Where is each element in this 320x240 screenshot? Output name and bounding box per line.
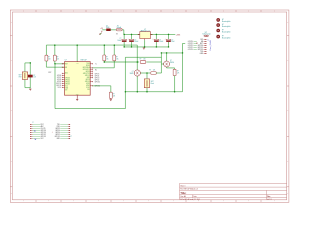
svg-text:GND: GND <box>57 138 60 140</box>
svg-text:SW?: SW? <box>18 75 21 77</box>
svg-text:Rev:: Rev: <box>267 196 271 198</box>
svg-text:GPIO16: GPIO16 <box>41 130 46 132</box>
svg-text:+: + <box>165 39 166 41</box>
svg-text:GPIO5: GPIO5 <box>95 74 100 76</box>
svg-text:EN: EN <box>201 41 203 43</box>
svg-text:GPIO0: GPIO0 <box>86 71 90 73</box>
svg-text:GPIO6: GPIO6 <box>57 75 61 77</box>
svg-text:R?: R? <box>33 75 35 77</box>
svg-text:GPIO14: GPIO14 <box>41 132 46 134</box>
svg-text:TXD0: TXD0 <box>86 63 90 65</box>
svg-text:J?: J? <box>208 39 210 41</box>
svg-text:GPIO13: GPIO13 <box>188 45 194 47</box>
svg-text:RXD: RXD <box>57 126 60 128</box>
svg-text:GND: GND <box>65 88 68 90</box>
svg-text:3V3: 3V3 <box>200 39 203 41</box>
svg-text:GPIO0: GPIO0 <box>55 132 60 134</box>
svg-text:SS34: SS34 <box>106 27 110 29</box>
svg-text:GPIO9: GPIO9 <box>57 81 61 83</box>
svg-text:GPIO12: GPIO12 <box>198 47 204 49</box>
svg-text:+3V3: +3V3 <box>176 35 180 37</box>
svg-text:VCC: VCC <box>76 63 79 65</box>
svg-text:SCLK: SCLK <box>58 87 62 89</box>
svg-text:S8050: S8050 <box>130 73 134 75</box>
svg-text:R?: R? <box>106 57 108 59</box>
svg-text:RXD0: RXD0 <box>86 65 90 67</box>
svg-text:GPIO7: GPIO7 <box>57 77 61 79</box>
svg-text:R?: R? <box>149 69 151 71</box>
svg-text:J?: J? <box>70 136 72 138</box>
svg-text:10K: 10K <box>48 58 50 60</box>
svg-text:Q?: Q? <box>170 60 172 62</box>
svg-text:H?: H? <box>222 19 224 21</box>
svg-text:RST: RST <box>200 43 203 45</box>
svg-text:GPIO16: GPIO16 <box>188 49 194 51</box>
svg-text:GPIO16: GPIO16 <box>65 78 70 80</box>
svg-text:CS0: CS0 <box>87 89 90 91</box>
svg-text:GPIO15: GPIO15 <box>188 47 194 49</box>
svg-text:+: + <box>153 39 154 41</box>
svg-text:Conn_01x08: Conn_01x08 <box>210 40 212 50</box>
svg-text:GPIO5: GPIO5 <box>55 128 60 130</box>
svg-text:J?: J? <box>32 122 34 124</box>
svg-text:EN: EN <box>65 67 67 69</box>
svg-text:12K: 12K <box>143 59 145 61</box>
svg-text:10K: 10K <box>113 95 115 97</box>
svg-text:10K: 10K <box>116 58 118 60</box>
svg-text:R?: R? <box>48 57 50 59</box>
svg-text:IO9: IO9 <box>65 90 67 92</box>
svg-text:C?: C? <box>159 39 161 41</box>
svg-text:GPIO15: GPIO15 <box>85 75 90 77</box>
svg-text:R?: R? <box>57 57 59 59</box>
svg-text:GPIO13: GPIO13 <box>41 136 46 138</box>
svg-text:GPIO4/SCL: GPIO4/SCL <box>83 69 90 71</box>
svg-text:10K: 10K <box>57 58 59 60</box>
svg-text:GPIO11: GPIO11 <box>56 85 61 87</box>
svg-text:GPIO15: GPIO15 <box>95 81 101 83</box>
svg-text:RST: RST <box>65 63 68 65</box>
svg-text:R?: R? <box>140 59 142 61</box>
svg-text:RST: RST <box>19 76 22 78</box>
svg-text:SW?: SW? <box>151 81 154 83</box>
svg-text:H?: H? <box>222 36 224 38</box>
svg-text:GPIO10: GPIO10 <box>85 81 90 83</box>
svg-text:MISO: MISO <box>86 85 89 87</box>
svg-text:RST: RST <box>41 124 44 126</box>
svg-text:12K: 12K <box>177 72 179 74</box>
svg-text:10K: 10K <box>106 58 108 60</box>
svg-text:GPIO2: GPIO2 <box>95 79 100 81</box>
svg-text:GPIO13: GPIO13 <box>65 84 70 86</box>
svg-text:GPIO12: GPIO12 <box>188 43 194 45</box>
svg-text:GPIO14: GPIO14 <box>65 80 70 82</box>
svg-text:GPIO4: GPIO4 <box>55 130 60 132</box>
svg-text:GPIO10: GPIO10 <box>56 83 61 85</box>
svg-text:H?: H? <box>222 30 224 32</box>
svg-text:R?: R? <box>116 57 118 59</box>
svg-text:100nF: 100nF <box>159 41 163 43</box>
svg-text:GPIO15: GPIO15 <box>55 136 60 138</box>
svg-text:R?: R? <box>177 71 179 73</box>
svg-text:GPIO4: GPIO4 <box>95 76 100 78</box>
svg-text:RST: RST <box>48 72 51 74</box>
svg-text:C?: C? <box>134 39 136 41</box>
svg-text:100uF: 100uF <box>134 41 138 43</box>
svg-text:GPIO14: GPIO14 <box>188 41 194 43</box>
svg-text:GPIO9: GPIO9 <box>86 79 90 81</box>
svg-text:GPIO12: GPIO12 <box>41 134 46 136</box>
svg-text:S8050: S8050 <box>170 62 174 64</box>
svg-text:GPIO13: GPIO13 <box>198 49 204 51</box>
svg-text:H?: H? <box>222 24 224 26</box>
svg-text:CH_PD: CH_PD <box>41 128 46 130</box>
svg-text:SCLK: SCLK <box>86 87 90 89</box>
svg-text:ESP-12F: ESP-12F <box>81 60 87 62</box>
svg-text:GPIO2: GPIO2 <box>55 134 60 136</box>
svg-text:C?: C? <box>120 38 122 40</box>
svg-text:GPIO12: GPIO12 <box>65 82 70 84</box>
svg-text:GND: GND <box>87 77 90 79</box>
svg-text:GPIO0: GPIO0 <box>95 77 100 79</box>
svg-text:File: ESP-12F Module.sch: File: ESP-12F Module.sch <box>180 189 198 191</box>
svg-text:GPIO8: GPIO8 <box>57 79 61 81</box>
svg-text:Id: 1/1: Id: 1/1 <box>267 199 272 201</box>
svg-text:Q?: Q? <box>132 71 134 73</box>
svg-text:RX: RX <box>196 43 198 45</box>
svg-text:TXD: TXD <box>57 124 60 126</box>
svg-text:100nF: 100nF <box>117 40 121 42</box>
svg-text:U?: U? <box>65 60 67 62</box>
svg-text:Tx: Tx <box>95 64 97 66</box>
svg-text:VCC: VCC <box>65 86 68 88</box>
svg-text:Title:: Title: <box>180 192 186 195</box>
svg-text:U?: U? <box>144 29 146 31</box>
svg-text:GPIO2/TX1: GPIO2/TX1 <box>83 73 90 75</box>
svg-text:+: + <box>128 39 129 41</box>
svg-text:12K: 12K <box>153 69 155 71</box>
svg-text:Rx: Rx <box>95 70 97 72</box>
svg-text:10uF: 10uF <box>171 41 174 43</box>
svg-text:R?: R? <box>113 94 115 96</box>
svg-text:Flash: Flash <box>151 83 155 85</box>
svg-text:VCC: VCC <box>41 138 44 140</box>
svg-text:GPIO14: GPIO14 <box>198 45 204 47</box>
svg-text:12K: 12K <box>33 77 36 79</box>
svg-text:C?: C? <box>171 39 173 41</box>
